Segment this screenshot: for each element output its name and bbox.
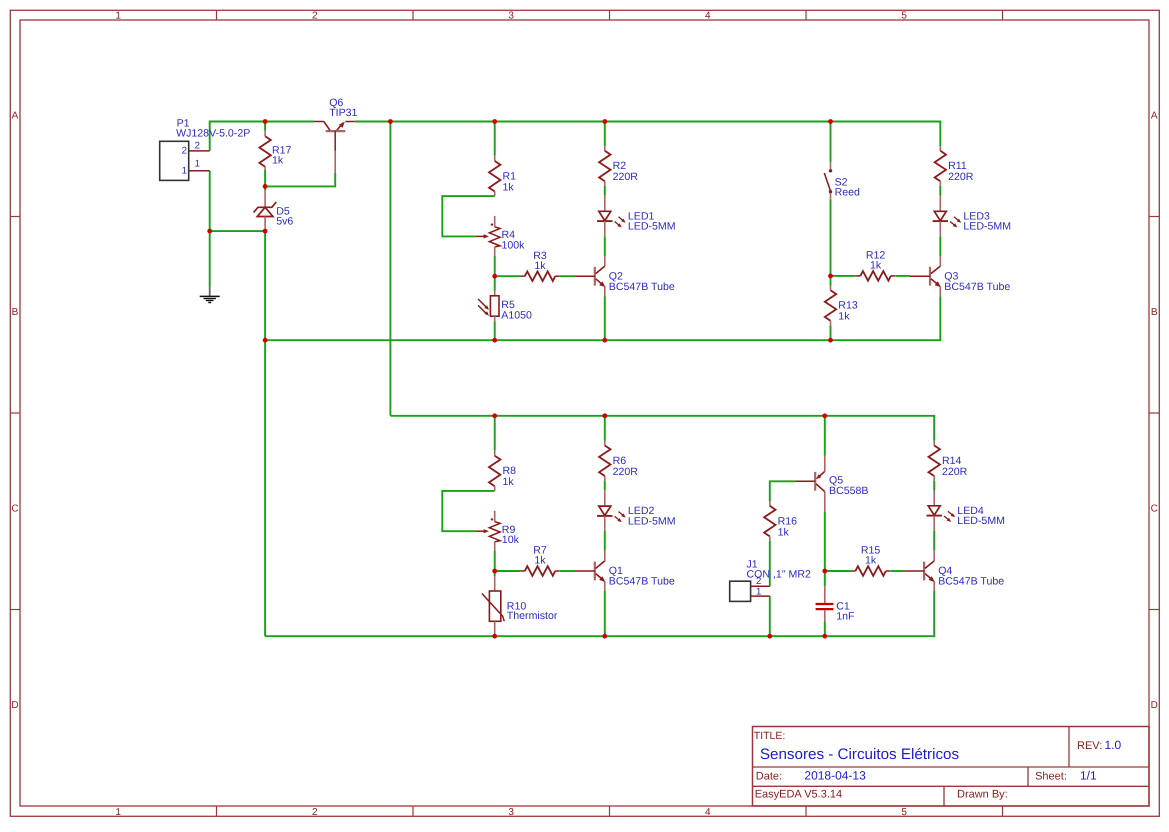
svg-text:220R: 220R [942, 466, 968, 478]
resistor R12 [856, 250, 895, 281]
svg-text:BC547B Tube: BC547B Tube [609, 281, 675, 293]
wire lower 0V rail [265, 591, 934, 636]
potentiometer R4 [476, 216, 525, 256]
svg-text:5: 5 [901, 807, 907, 818]
wire R5 bottom [494, 321, 496, 340]
resistor R15 [851, 545, 890, 576]
svg-text:1: 1 [756, 586, 761, 597]
svg-text:B: B [12, 307, 19, 318]
svg-text:A: A [12, 111, 19, 122]
svg-text:1k: 1k [534, 260, 546, 272]
svg-text:2: 2 [182, 146, 187, 157]
svg-text:TITLE:: TITLE: [754, 730, 786, 742]
svg-text:3: 3 [508, 807, 514, 818]
wire LED1 to Q2 collector [604, 236, 606, 256]
capacitor C1 [816, 586, 855, 622]
transistor Q6 [314, 97, 358, 173]
svg-text:BC558B: BC558B [829, 485, 868, 497]
wire node to R7 [495, 570, 521, 572]
wire C1 to 0V [824, 622, 826, 637]
wire LED2 to Q1 collector [604, 531, 606, 551]
connector P1 [160, 118, 251, 181]
wire R8 to R9 wiper jog [442, 491, 494, 531]
svg-text:B: B [1151, 307, 1158, 318]
wire R3 to Q2 base [560, 275, 575, 277]
svg-text:1k: 1k [534, 555, 546, 567]
transistor Q3 [910, 256, 1010, 296]
wire D5 cathode stub [264, 186, 266, 190]
zener diode D5 [254, 191, 294, 231]
wire R8 top [494, 416, 496, 451]
resistor R2 [599, 146, 638, 186]
wire lower section top rail [390, 416, 934, 441]
svg-text:2: 2 [756, 576, 761, 587]
svg-text:1k: 1k [272, 155, 284, 167]
resistor R7 [520, 545, 559, 576]
svg-text:Reed: Reed [835, 187, 860, 199]
wire R7 to Q1 base [560, 570, 575, 572]
transistor Q1 [575, 551, 675, 591]
svg-text:D: D [1151, 700, 1158, 711]
wire Q2 emitter to 0V [604, 296, 606, 340]
wire Q1 emitter to 0V [604, 591, 606, 636]
wire S2 to node [830, 199, 832, 276]
wire LED3 to Q3 collector [939, 236, 941, 256]
wire R2 to LED1 [604, 186, 606, 196]
wire node to Q6 base [265, 173, 335, 186]
wire J1 pin1 to 0V [769, 596, 771, 636]
resistor R1 [489, 156, 516, 196]
svg-text:1: 1 [115, 807, 121, 818]
svg-text:C: C [11, 504, 18, 515]
wire node to C1 [824, 571, 826, 586]
svg-text:100k: 100k [502, 239, 526, 251]
svg-text:1k: 1k [778, 526, 790, 538]
wire R12 to Q3 base [895, 275, 910, 277]
wire S2 top [830, 122, 832, 163]
svg-text:WJ128V-5.0-2P: WJ128V-5.0-2P [176, 127, 250, 139]
wire R4 bottom to node [494, 256, 496, 277]
svg-text:1k: 1k [870, 260, 882, 272]
wire R13 bottom [830, 325, 832, 340]
transistor Q4 [904, 551, 1004, 591]
thermistor R10 [482, 576, 558, 636]
resistor R17 [259, 130, 291, 170]
svg-text:REV:: REV: [1077, 740, 1102, 752]
svg-text:C: C [1151, 504, 1158, 515]
wire R2 top [604, 122, 606, 147]
wire R9 bottom to node [494, 550, 496, 571]
resistor R16 [764, 501, 797, 541]
transistor Q2 [575, 256, 675, 296]
resistor R3 [520, 250, 559, 281]
svg-text:Thermistor: Thermistor [507, 610, 558, 622]
wire LED4 to Q4 collector [933, 531, 935, 551]
wire R6 to LED2 [604, 481, 606, 491]
LED LED1 [597, 196, 675, 237]
connector J1 [730, 559, 811, 602]
LED LED4 [927, 490, 1005, 531]
wire D5 anode to ground rail [264, 231, 266, 340]
svg-text:BC547B Tube: BC547B Tube [609, 576, 675, 588]
wire R15 to Q4 base [890, 570, 904, 572]
svg-text:Date:: Date: [756, 771, 782, 783]
wire 0V mid rail [265, 296, 940, 340]
svg-text:4: 4 [705, 807, 711, 818]
svg-text:4: 4 [705, 11, 711, 22]
wire node to R3 [495, 275, 521, 277]
svg-text:A1050: A1050 [501, 309, 532, 321]
svg-text:1k: 1k [503, 476, 515, 488]
svg-text:LED-5MM: LED-5MM [957, 515, 1005, 527]
wire node to R12 [831, 275, 856, 277]
svg-text:220R: 220R [613, 171, 639, 183]
svg-text:1k: 1k [838, 310, 850, 322]
ground [200, 287, 220, 303]
svg-text:2: 2 [312, 807, 318, 818]
wire P1 pin1 node to D5 anode [210, 230, 265, 232]
wire node to R15 [825, 570, 851, 572]
potentiometer R9 [476, 511, 520, 551]
title block [753, 727, 1150, 807]
transistor Q5 [795, 456, 868, 512]
svg-text:Sensores - Circuitos Elétricos: Sensores - Circuitos Elétricos [760, 746, 960, 763]
svg-text:1.0: 1.0 [1105, 738, 1122, 752]
reed switch S2 [824, 162, 860, 199]
wire Q5 emitter to rail [824, 416, 826, 456]
svg-text:1k: 1k [503, 181, 515, 193]
svg-text:EasyEDA V5.3.14: EasyEDA V5.3.14 [755, 789, 842, 801]
svg-text:3: 3 [508, 11, 514, 22]
svg-text:LED-5MM: LED-5MM [963, 221, 1011, 233]
wire R5 node stub [494, 276, 496, 291]
svg-text:220R: 220R [613, 466, 639, 478]
wire Q5 collector to node [824, 511, 826, 571]
wire R13 stub [830, 276, 832, 286]
resistor R11 [935, 146, 974, 186]
svg-text:A: A [1151, 111, 1158, 122]
svg-text:LED-5MM: LED-5MM [628, 515, 676, 527]
wire R14 to LED4 [933, 481, 935, 491]
wire R17 top stub [264, 122, 266, 131]
svg-text:1k: 1k [865, 555, 877, 567]
svg-text:2: 2 [312, 11, 318, 22]
photoresistor R5 [478, 291, 532, 321]
wire 0V left drop [264, 340, 266, 636]
wire R17 bottom to node [264, 170, 266, 186]
resistor R6 [599, 441, 638, 481]
svg-text:Drawn By:: Drawn By: [957, 789, 1008, 801]
svg-text:10k: 10k [502, 534, 520, 546]
svg-text:1/1: 1/1 [1080, 769, 1097, 783]
LED LED3 [933, 196, 1011, 237]
svg-text:2018-04-13: 2018-04-13 [804, 769, 866, 783]
wire VCC rail left segment and P1 pin2 riser [210, 122, 314, 151]
wire R1 top [494, 122, 496, 156]
resistor R8 [489, 451, 516, 491]
svg-text:1: 1 [115, 11, 121, 22]
svg-text:TIP31: TIP31 [329, 107, 357, 119]
wire R11 to LED3 [939, 186, 941, 196]
svg-text:2: 2 [195, 140, 200, 151]
wire R10 node stub [494, 571, 496, 576]
wire P1 pin1 to ground [209, 171, 211, 287]
svg-text:D: D [11, 700, 18, 711]
resistor R14 [929, 441, 968, 481]
LED LED2 [597, 490, 675, 531]
wire R16 to J1 pin2 [769, 541, 771, 586]
wire Q5 base to R16 [770, 481, 795, 501]
svg-text:1: 1 [195, 158, 200, 169]
svg-text:Sheet:: Sheet: [1035, 771, 1067, 783]
svg-text:220R: 220R [948, 171, 974, 183]
wire VCC rail right segment [355, 122, 941, 147]
svg-text:LED-5MM: LED-5MM [628, 221, 676, 233]
wire VCC branch down to lower section [389, 122, 391, 416]
resistor R13 [825, 286, 858, 326]
svg-text:BC547B Tube: BC547B Tube [938, 576, 1004, 588]
svg-text:5v6: 5v6 [276, 216, 293, 228]
wire R6 top [604, 416, 606, 441]
wire R1 to R4 wiper jog [442, 196, 494, 236]
svg-text:5: 5 [901, 11, 907, 22]
svg-text:BC547B Tube: BC547B Tube [944, 281, 1010, 293]
svg-text:1nF: 1nF [836, 610, 855, 622]
svg-text:1: 1 [182, 165, 187, 176]
